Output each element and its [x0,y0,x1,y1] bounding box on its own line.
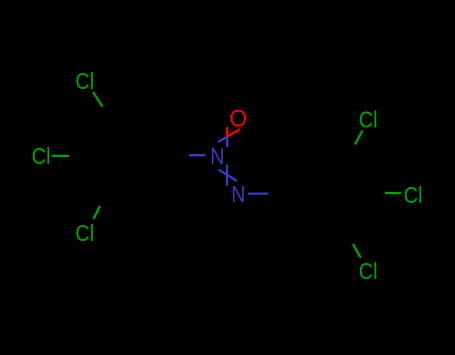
svg-text:Cl: Cl [75,219,94,246]
wire: N1=O crossed double bond, vertical segment red half [226,127,228,137]
svg-text:Cl: Cl [359,106,378,133]
svg-text:Cl: Cl [32,142,51,169]
wire: N1=O crossed double bond, diagonal segment red half [228,129,241,137]
wire: C-Cl4 half-bond stub [355,131,363,145]
wire: C-Cl3 half-bond stub [94,206,101,219]
wire: N1=O crossed double bond, diagonal segment blue half [218,137,228,143]
wire: N2-C(right ring) half-bond stub [248,192,268,194]
wire: N1=N2 crossed double bond, diagonal segment [219,170,238,182]
wire: N1=O crossed double bond, vertical segment blue half [226,137,228,147]
wire: N1=N2 crossed double bond, vertical segment [226,165,228,186]
wire: C-Cl2 half-bond stub [52,155,69,157]
svg-text:Cl: Cl [359,257,378,284]
wire: C-Cl5 half-bond stub [385,192,401,194]
wire: N1-C(left ring) half-bond stub [189,154,206,156]
svg-text:Cl: Cl [75,67,94,94]
wire: C-Cl1 half-bond stub [93,92,103,107]
svg-text:N: N [231,180,245,207]
svg-text:O: O [229,105,247,132]
wire: C-Cl6 half-bond stub [353,244,361,258]
svg-text:Cl: Cl [404,181,423,208]
svg-text:N: N [210,142,224,169]
